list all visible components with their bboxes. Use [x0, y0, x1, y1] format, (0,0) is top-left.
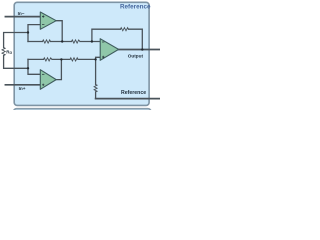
node dot A2 RG junction	[27, 67, 29, 69]
wire reference bottom	[96, 98, 160, 100]
op-amp A1	[40, 12, 56, 29]
op-amp A3 plus	[102, 56, 104, 58]
wire A1 output	[56, 21, 62, 42]
node dot A1 output junction	[61, 40, 63, 42]
op-amp A2 plus	[42, 84, 44, 86]
resistor R3	[44, 58, 53, 61]
wire reference riser	[95, 59, 97, 84]
op-amp A3	[100, 39, 118, 61]
wire RG bottom	[4, 56, 28, 69]
node dot A3 noninverting junction	[94, 58, 96, 60]
wire bottom R-line right	[78, 58, 96, 60]
wire top R-line left	[28, 41, 43, 43]
wire top R-line mid	[51, 41, 72, 43]
wire A3 output	[119, 49, 160, 51]
background	[0, 0, 160, 110]
wire feedback right	[129, 29, 143, 49]
wire bottom R-line mid	[52, 58, 70, 60]
node dot A2 output junction	[60, 58, 62, 60]
wire top R-line right	[80, 41, 100, 43]
op-amp A1 minus	[42, 24, 44, 26]
wire A1 inverting input branch	[28, 25, 40, 42]
svg-text:RG: RG	[6, 49, 12, 55]
resistor R1	[43, 40, 51, 43]
svg-text:In+: In+	[19, 86, 26, 91]
wire bottom R-line left	[28, 58, 44, 60]
resistor R5 feedback	[120, 28, 128, 31]
node dot A3 inverting junction	[91, 40, 93, 42]
wire RG top	[4, 33, 28, 48]
op-amp A2	[40, 70, 56, 90]
resistor R6 reference	[94, 85, 97, 92]
wire In- input	[5, 16, 40, 18]
resistor RG	[2, 48, 5, 56]
wire A3 noninverting input	[96, 57, 101, 59]
svg-text:Reference: Reference	[121, 90, 146, 96]
resistor R4	[70, 58, 78, 61]
main panel	[14, 2, 149, 105]
op-amp A2 minus	[42, 73, 44, 75]
svg-text:Output: Output	[128, 54, 144, 59]
node dot A1 RG junction	[27, 31, 29, 33]
svg-text:In−: In−	[18, 11, 25, 16]
svg-text:Reference: Reference	[120, 4, 151, 11]
op-amp A1 plus	[42, 15, 44, 17]
second panel (cropped at bottom)	[14, 109, 152, 129]
wire In+ input	[5, 84, 40, 86]
wire A2 output	[56, 59, 61, 79]
resistor R2	[72, 40, 81, 43]
op-amp A3 minus	[102, 41, 104, 43]
node dot A3 output junction	[141, 48, 143, 50]
wire A2 inverting input branch	[28, 59, 40, 74]
wire A3 feedback riser	[92, 29, 121, 41]
wire reference bottom riser	[96, 92, 97, 99]
